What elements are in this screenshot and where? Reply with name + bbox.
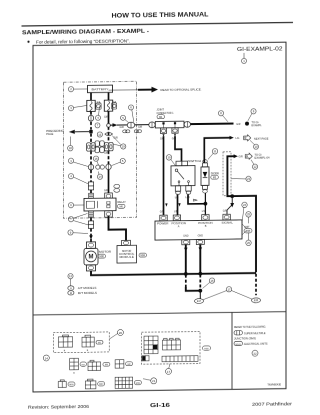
svg-text:G/R: G/R xyxy=(239,155,244,158)
pin relay top left (ladder) xyxy=(89,193,94,199)
svg-text:GI-16: GI-16 xyxy=(150,403,170,409)
callout 21 xyxy=(143,378,157,384)
pin GND left xyxy=(182,235,190,245)
motor control module U1 xyxy=(117,240,137,263)
pin POWER xyxy=(160,215,167,221)
svg-text:POWER: POWER xyxy=(157,222,169,225)
wire xyxy=(90,151,92,164)
node bus junction left xyxy=(184,272,188,276)
svg-text:12: 12 xyxy=(69,274,73,278)
callout 11 xyxy=(208,149,218,160)
svg-text:UNIT: UNIT xyxy=(244,226,250,229)
svg-text:15: 15 xyxy=(94,157,98,161)
label DIODE xyxy=(211,171,219,179)
wire GND right down xyxy=(199,244,201,272)
pin POSITION B xyxy=(202,215,209,221)
inline connector xyxy=(88,221,93,229)
callout relay pins xyxy=(68,213,88,225)
callout 17b xyxy=(166,364,172,375)
svg-text:SUPER MULTIPLE: SUPER MULTIPLE xyxy=(244,331,266,335)
svg-text:E101: E101 xyxy=(236,344,242,346)
svg-text:-ELECTRICAL UNITS: -ELECTRICAL UNITS xyxy=(244,342,268,346)
wire battery left terminal to fuse F1 xyxy=(90,93,92,101)
callout 16 xyxy=(203,278,215,289)
svg-text:M34: M34 xyxy=(140,255,145,257)
connector M2 xyxy=(82,335,94,347)
node 1 callout xyxy=(242,53,247,64)
wire switch left pin to POSITION A xyxy=(177,194,179,215)
oval terminal labels xyxy=(114,184,120,188)
callout 17 xyxy=(203,286,252,299)
rule under title xyxy=(22,22,294,26)
wire J/C right to splice xyxy=(191,123,234,126)
svg-text:EXAMPL: EXAMPL xyxy=(252,124,263,127)
wire junction to joint connector (arrow) xyxy=(110,123,127,127)
svg-text:G/R: G/R xyxy=(120,126,125,129)
wire signal to control unit xyxy=(227,198,232,215)
svg-text:17: 17 xyxy=(227,287,231,291)
legend A/T models xyxy=(68,286,97,291)
callout 22 xyxy=(252,350,258,356)
svg-text:SWITCH: SWITCH xyxy=(188,159,201,163)
callout 13 xyxy=(97,132,102,137)
wire signal junction to right drop xyxy=(233,196,256,273)
svg-text:12: 12 xyxy=(253,165,257,169)
pin SIGNAL xyxy=(223,214,230,220)
ground terminal E38 xyxy=(252,298,261,303)
connector row2 B1 xyxy=(70,358,79,370)
pin POSITION A xyxy=(173,215,180,221)
svg-text:22: 22 xyxy=(253,352,257,356)
callout left mid xyxy=(68,158,88,167)
pin switch bottom right xyxy=(186,186,191,195)
small ovals near feed xyxy=(96,165,105,169)
inline connector on left wire xyxy=(88,182,93,190)
motor M1 xyxy=(84,242,98,271)
wire to ground terminal xyxy=(199,291,201,299)
svg-text:14: 14 xyxy=(98,175,102,179)
value label 30A xyxy=(96,101,101,110)
svg-text:18: 18 xyxy=(69,146,73,150)
control unit big box xyxy=(155,220,242,240)
svg-text:G/R: G/R xyxy=(104,189,109,192)
wire signal feed xyxy=(227,156,234,196)
joint connector J/C-1 label xyxy=(157,108,174,119)
connector cluster mid xyxy=(95,141,104,153)
callout 6 xyxy=(129,105,134,122)
node diode/switch junction xyxy=(204,202,208,206)
svg-text:E38: E38 xyxy=(254,300,259,302)
vertical divider in connector area xyxy=(231,312,233,389)
svg-text:L/G: L/G xyxy=(236,137,240,140)
svg-text:14: 14 xyxy=(45,356,49,360)
splice node S1 xyxy=(245,122,249,126)
connector E4 long strip xyxy=(162,356,198,362)
wire F1 down (dashed thick) xyxy=(90,111,92,129)
wire J/C pin1 down to control unit POWER xyxy=(163,136,165,215)
svg-text:REFER TO THE FOLLOWING.: REFER TO THE FOLLOWING. xyxy=(234,324,266,328)
svg-text:13: 13 xyxy=(98,133,102,137)
connector M1 xyxy=(59,335,73,347)
wire battery right terminal down xyxy=(108,92,110,100)
connector row3 C2 xyxy=(85,379,96,389)
node junction F2 branch xyxy=(107,124,111,128)
svg-text:24: 24 xyxy=(243,203,247,207)
left wire: connector pair xyxy=(87,143,96,152)
wire diode bottom to POSITION B xyxy=(204,193,206,215)
harness dashed box xyxy=(64,81,137,218)
wire right drop below bus xyxy=(255,274,257,296)
connector E3 small strip xyxy=(142,356,149,361)
preceding page arrow xyxy=(69,130,90,134)
label PRECEDING PAGE xyxy=(46,129,63,136)
svg-text:MODULE: MODULE xyxy=(119,256,134,259)
svg-text:10: 10 xyxy=(167,156,171,160)
svg-text:G/R: G/R xyxy=(223,211,227,213)
wire branch to optional splice xyxy=(109,89,141,91)
bullet xyxy=(27,41,29,43)
svg-text:E17: E17 xyxy=(197,301,202,303)
label MOTOR xyxy=(98,250,111,259)
svg-text:2007 Pathfinder: 2007 Pathfinder xyxy=(252,401,293,407)
callout 4 xyxy=(96,106,101,120)
wire GND left down xyxy=(185,245,187,273)
connector row2 B2 xyxy=(88,360,101,370)
arrow on wire xyxy=(194,199,198,201)
svg-text:M/T MODELS: M/T MODELS xyxy=(78,291,97,295)
label TO GI-EXAMPL-04 xyxy=(255,154,271,160)
callout 5 xyxy=(121,115,129,123)
callout 12 xyxy=(251,160,258,170)
unit callouts right xyxy=(242,202,252,246)
callout 19 xyxy=(112,135,126,149)
svg-text:TKWM0043E: TKWM0043E xyxy=(267,384,281,386)
diode D1 xyxy=(201,160,209,190)
svg-text:GND: GND xyxy=(183,235,189,238)
wire motor to ground bus xyxy=(91,269,256,275)
svg-text:PAGE: PAGE xyxy=(46,132,53,136)
callout 2 xyxy=(68,86,87,91)
ground terminal E17 xyxy=(195,299,204,304)
terminal oval diode bottom xyxy=(203,190,208,193)
fuse F2 15A xyxy=(104,100,112,112)
node gnd junction xyxy=(198,289,202,293)
terminal ovals at inline connector xyxy=(123,130,142,133)
callout 3 xyxy=(68,105,86,110)
callout 21a xyxy=(68,173,88,184)
node junction at preceding-page tap xyxy=(89,130,92,133)
connector inline C1 xyxy=(127,122,135,128)
wire diode top to next page xyxy=(204,138,230,163)
svg-text:SIGNAL: SIGNAL xyxy=(222,221,234,224)
pin relay top right xyxy=(105,193,113,199)
connector E1 tall grid xyxy=(144,336,158,354)
svg-text:G/R: G/R xyxy=(138,126,143,129)
wire relay feed: junction down through connectors xyxy=(108,127,110,142)
callout next page xyxy=(250,140,259,149)
splice lens symbol xyxy=(105,132,113,135)
pin 1 J/C bottom left xyxy=(160,128,166,134)
battery B1 xyxy=(88,85,113,93)
svg-text:L/B: L/B xyxy=(174,211,178,213)
wire J/C pin2 down to switch xyxy=(175,136,182,161)
wire relay right pin to module xyxy=(109,215,127,240)
svg-text:M: M xyxy=(89,255,94,261)
svg-text:M: M xyxy=(70,292,72,295)
to-page connector symbol xyxy=(245,153,252,159)
svg-text:BATTERY: BATTERY xyxy=(92,87,109,91)
callout mid band xyxy=(93,156,98,165)
node signal junction xyxy=(230,194,234,198)
pin relay bottom left (ladder) xyxy=(89,211,94,217)
divider between schematic and connector area xyxy=(33,312,286,315)
svg-text:M30: M30 xyxy=(99,256,104,258)
svg-text:GI-EXAMPL-02: GI-EXAMPL-02 xyxy=(237,46,283,53)
callout 23 xyxy=(231,176,251,181)
wire C1 to joint connector xyxy=(135,124,149,126)
svg-text:26: 26 xyxy=(247,241,251,245)
svg-text:RELAY: RELAY xyxy=(118,200,127,204)
connector area: dashed group B xyxy=(142,331,201,364)
svg-text:NEXT PAGE: NEXT PAGE xyxy=(254,138,269,141)
wire xyxy=(108,151,110,164)
svg-text:M35: M35 xyxy=(246,231,251,233)
svg-text:EXAMPL-04: EXAMPL-04 xyxy=(255,157,271,160)
connector inline on fuse wire xyxy=(88,115,93,121)
callout 8 xyxy=(218,111,228,123)
svg-text:G/R: G/R xyxy=(160,212,164,214)
svg-text:Revision: September 2006: Revision: September 2006 xyxy=(28,404,89,410)
svg-text:G/R: G/R xyxy=(236,123,241,126)
connector row2 B3 xyxy=(115,360,124,369)
svg-text:JUNCTION (SMJ): JUNCTION (SMJ) xyxy=(234,336,256,340)
wire relay left pin down xyxy=(90,217,92,221)
callout 14L xyxy=(43,355,49,361)
svg-text:11: 11 xyxy=(214,149,217,153)
wire xyxy=(90,170,92,182)
connector inline on relay feed xyxy=(106,164,111,170)
callout relay xyxy=(68,202,84,207)
joint connector J/C-1 body xyxy=(149,121,191,128)
svg-text:G/R: G/R xyxy=(104,115,109,118)
wire switch right pin to diode node xyxy=(188,194,205,204)
marker on power wire xyxy=(165,203,167,206)
svg-text:MOTOR: MOTOR xyxy=(99,250,111,254)
pin switch bottom left xyxy=(175,186,180,195)
pin relay bottom right xyxy=(105,211,113,217)
svg-text:17: 17 xyxy=(167,370,171,374)
wire dashed to motor xyxy=(90,228,92,242)
svg-text:DIODE: DIODE xyxy=(211,171,219,175)
label E oval xyxy=(203,346,211,351)
connector E2 wide grid xyxy=(163,338,181,350)
connector row3 C3 xyxy=(115,377,133,388)
svg-text:REAR TO OPTIONAL SPLICE.: REAR TO OPTIONAL SPLICE. xyxy=(161,87,202,92)
callout 9 xyxy=(248,109,256,121)
svg-text:HOW TO USE THIS MANUAL: HOW TO USE THIS MANUAL xyxy=(112,11,209,19)
legend M/T models xyxy=(68,290,97,295)
pin GND right xyxy=(196,235,204,245)
wire to relay pin xyxy=(108,170,110,194)
wire GND drops below bus xyxy=(185,275,187,289)
connector pair on relay feed xyxy=(104,142,113,151)
label TO GI-EXAMPL xyxy=(252,121,263,127)
value label 15A xyxy=(112,100,117,109)
fusible link F1 30A xyxy=(87,100,95,112)
svg-text:16: 16 xyxy=(210,279,214,283)
wire gnd link xyxy=(186,287,201,291)
next page connector symbol xyxy=(244,135,251,141)
pin 2 J/C bottom right xyxy=(172,128,178,134)
svg-text:GND: GND xyxy=(198,235,204,238)
wire F2 down thick xyxy=(108,111,110,125)
wire to relay xyxy=(90,190,92,193)
callout motor wire xyxy=(68,230,88,235)
svg-text:10: 10 xyxy=(254,145,258,149)
refer-to block xyxy=(234,324,268,346)
svg-text:21: 21 xyxy=(152,379,156,383)
legend callout xyxy=(68,274,73,286)
svg-text:25: 25 xyxy=(247,213,251,217)
label RELAY xyxy=(118,200,127,208)
shield dashed box xyxy=(223,152,231,196)
label M34 xyxy=(139,253,147,257)
callout 18 xyxy=(68,136,73,150)
node bus junction right xyxy=(198,272,202,276)
svg-text:19: 19 xyxy=(122,145,126,149)
svg-text:20: 20 xyxy=(119,331,123,335)
svg-text:A/T MODELS: A/T MODELS xyxy=(78,286,97,290)
figure frame xyxy=(33,42,286,392)
callout 7 xyxy=(95,123,100,128)
wire junction down dashed xyxy=(90,134,92,143)
arrow rear to optional splice xyxy=(138,86,202,93)
relay RY1 xyxy=(84,198,116,211)
svg-text:CONNECTOR-1: CONNECTOR-1 xyxy=(157,111,174,115)
svg-text:G/R: G/R xyxy=(104,152,109,155)
callout 10 xyxy=(166,155,175,166)
marker on position-a wire xyxy=(178,203,180,206)
connector inline on left wire xyxy=(88,164,93,170)
connector area: dashed group A xyxy=(53,332,109,353)
switch SW1 xyxy=(171,159,201,186)
callout 20m xyxy=(112,158,126,165)
svg-text:23: 23 xyxy=(247,177,251,181)
callout 20 xyxy=(109,329,123,339)
connector row3 C1 xyxy=(58,380,66,388)
callout mid 14 xyxy=(97,171,102,179)
